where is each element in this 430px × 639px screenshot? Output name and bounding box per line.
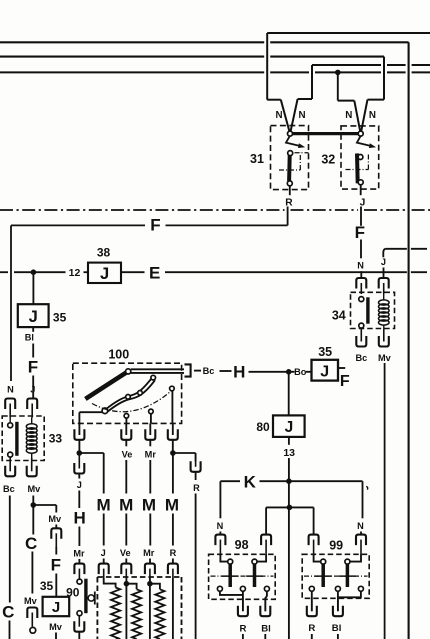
- label 13 connector pin: [283, 447, 295, 459]
- node junction on E line: [31, 269, 37, 275]
- svg-text:K: K: [244, 473, 257, 492]
- switch 31 mechanical dash-dot link: [279, 153, 309, 170]
- connector below 90: [74, 615, 84, 639]
- svg-text:12: 12: [69, 267, 81, 279]
- svg-text:E: E: [149, 264, 160, 283]
- wire J output of 32 down with labels F N: [360, 207, 362, 279]
- svg-text:Mr: Mr: [145, 449, 157, 459]
- svg-text:H: H: [233, 362, 245, 381]
- svg-text:Ve: Ve: [122, 449, 133, 459]
- svg-text:N: N: [357, 521, 364, 531]
- 98 entry jogs: [220, 554, 266, 562]
- 99 entry jogs: [314, 554, 361, 562]
- svg-text:Mv: Mv: [28, 484, 42, 494]
- svg-text:N: N: [298, 110, 305, 121]
- wire M3 (Mr): [149, 440, 151, 564]
- wire Mv right-side long vertical: [384, 363, 386, 639]
- labels R Bl below 98: [240, 624, 247, 635]
- connector above flasher 33 right: [27, 399, 37, 418]
- wire bus line 1 (top horizontal to relay 31 left feed): [267, 33, 430, 100]
- node junction on bus line 5: [335, 70, 341, 101]
- junction box unit 35 J (bottom): [43, 597, 70, 616]
- labels R Bl below 99: [308, 623, 315, 634]
- label N above relay 34: [357, 261, 364, 271]
- label 31: [250, 152, 264, 166]
- svg-text:J: J: [101, 548, 106, 558]
- label N pin relay 32 left: [345, 110, 352, 121]
- switch 31 contact bar: [287, 151, 292, 186]
- wire dash between Bc and H: [220, 370, 232, 372]
- label N pin relay 31 right: [298, 110, 305, 121]
- wire net K horizontal: [220, 480, 362, 482]
- label Bc right of switch: [203, 366, 215, 376]
- label 100: [108, 347, 129, 361]
- node T junction: [266, 505, 314, 511]
- svg-text:R: R: [285, 198, 293, 209]
- label Bl wire colour: [25, 333, 34, 343]
- lamp unit 99 dashed box: [302, 554, 369, 598]
- label Mv below bottom 35: [49, 622, 63, 632]
- connector below 100 output 4: [168, 423, 178, 439]
- 99 crossbars: [315, 575, 356, 577]
- svg-text:F: F: [340, 373, 350, 390]
- junction box unit 80 J: [273, 415, 305, 437]
- label J output of 32: [360, 198, 366, 209]
- label 38: [97, 246, 111, 260]
- svg-text:C: C: [25, 534, 37, 553]
- wire H to junction: [249, 371, 287, 373]
- svg-text:J: J: [52, 599, 60, 616]
- connector pair on wire 1: [74, 455, 84, 474]
- label M wire 4: [165, 495, 179, 514]
- label Ve upper: [122, 449, 133, 459]
- wire into resistor 3 with junction: [147, 578, 160, 639]
- connector above thermal switch 90: [74, 564, 84, 579]
- wire bus line 5 (bottom horizontal of bus): [0, 71, 430, 73]
- svg-text:J: J: [285, 419, 294, 436]
- wire from switch 32 to label J: [360, 185, 362, 196]
- svg-text:F: F: [150, 216, 160, 235]
- svg-text:J: J: [320, 363, 329, 380]
- wire Bc to H: [194, 370, 201, 372]
- wire Mv down with junction: [31, 496, 37, 594]
- svg-text:31: 31: [250, 152, 264, 166]
- svg-text:80: 80: [256, 420, 270, 434]
- label J wire colour: [30, 384, 35, 394]
- wire funnel right into relay 31 terminal N: [291, 99, 312, 131]
- wire funnel right into relay 32 terminal N: [361, 100, 384, 132]
- svg-text:J: J: [100, 265, 109, 283]
- wire bus line 4 (feeds relay 31 right): [312, 65, 430, 99]
- label J on wire 1: [77, 480, 82, 490]
- svg-text:F: F: [51, 556, 61, 575]
- svg-text:J: J: [381, 257, 386, 267]
- junction box unit 35 J (right): [312, 360, 339, 381]
- svg-text:N: N: [369, 110, 376, 121]
- svg-text:32: 32: [321, 152, 335, 166]
- node junction H line: [286, 369, 292, 375]
- label 35 (right unit): [318, 345, 332, 359]
- connectors below 98: [238, 598, 270, 617]
- svg-text:Mr: Mr: [143, 548, 155, 558]
- 99 plunger bars: [323, 564, 347, 587]
- wire to 35 with label F: [55, 547, 57, 597]
- switch 32 moving arm with arrow: [357, 136, 376, 148]
- svg-text:R: R: [240, 624, 247, 635]
- label Mr on wire 1: [73, 549, 85, 559]
- label Mv lower: [24, 596, 38, 606]
- svg-text:C: C: [2, 603, 14, 622]
- label 34: [332, 309, 346, 323]
- wire M4 (R) with junction: [170, 440, 176, 564]
- wire right-side long vertical: [408, 42, 410, 639]
- connector above 34 right: [379, 278, 389, 294]
- wire net F horizontal: [11, 207, 288, 382]
- svg-text:F: F: [355, 223, 365, 242]
- 98 bottom contacts: [217, 586, 269, 591]
- lighting switch 100 dashed box: [73, 363, 182, 423]
- wire K left leg to lamp 98: [219, 481, 221, 534]
- svg-text:J: J: [30, 384, 35, 394]
- wire Bc down to net C: [9, 496, 11, 639]
- section divider dash-dot line: [0, 209, 430, 211]
- wire bus line 3 (third horizontal, feeds relay 32 right): [0, 57, 384, 100]
- svg-text:R: R: [308, 623, 315, 634]
- connector on Mv branch: [51, 528, 61, 547]
- label Mv wire colour: [28, 484, 42, 494]
- svg-text:Bc: Bc: [3, 484, 15, 494]
- svg-text:38: 38: [97, 246, 111, 260]
- label H net: [73, 509, 85, 528]
- wire into resistor 1: [104, 578, 116, 588]
- switch 32 dashed box: [341, 126, 379, 189]
- label 99: [329, 539, 343, 553]
- thermal switch 90: [77, 579, 86, 616]
- connector above 98 left: [215, 535, 225, 554]
- switch 31 moving arm with arrow: [286, 136, 305, 148]
- 98 output wires: [220, 591, 267, 611]
- wire bus line 2 (second horizontal, turns down right side): [0, 41, 409, 43]
- svg-text:M: M: [142, 495, 156, 514]
- receptacle connector for Bc: [185, 364, 191, 376]
- svg-text:J: J: [29, 308, 38, 326]
- label 35 (bottom unit): [40, 579, 54, 593]
- svg-text:N: N: [217, 521, 224, 531]
- svg-text:Mv: Mv: [48, 514, 62, 524]
- label Ve lower: [120, 548, 131, 558]
- 98 dash-dot linkage: [211, 575, 274, 577]
- flasher 33 contact pair: [8, 418, 17, 458]
- wire 4 through resistor box: [172, 578, 174, 639]
- wire stubs below 99: [312, 634, 338, 639]
- svg-text:Ve: Ve: [120, 548, 131, 558]
- 98 crossbars: [222, 575, 263, 577]
- label N on 98 left: [217, 521, 224, 531]
- junction box unit 35 J (left): [18, 304, 49, 327]
- 99 dash-dot linkage: [304, 575, 368, 577]
- label R branch: [193, 483, 200, 493]
- wire 1 labels J H Mr: [78, 474, 80, 564]
- label Bc wire colour: [3, 484, 15, 494]
- connector below 100 output 1: [74, 423, 84, 439]
- 99 output wires: [312, 591, 361, 611]
- label F on branch: [51, 556, 61, 575]
- label 32: [321, 152, 335, 166]
- wire from E junction down to unit 35: [32, 272, 34, 304]
- wire feed to 34 coil from right bus: [383, 249, 427, 278]
- wire stubs below 98: [243, 634, 265, 639]
- label N pin relay 31 left: [275, 110, 282, 121]
- svg-text:Bc: Bc: [203, 366, 215, 376]
- svg-text:13: 13: [283, 447, 295, 459]
- relay 34 dashed box: [351, 292, 395, 328]
- svg-text:R: R: [170, 548, 177, 558]
- wire 1 from 100 with junction: [77, 440, 83, 456]
- label 90: [66, 585, 80, 599]
- svg-text:Bo: Bo: [294, 367, 307, 377]
- label M wire 2: [119, 495, 133, 514]
- label R wire 4: [170, 548, 177, 558]
- wire from switch 31 to label R: [289, 186, 291, 195]
- label J above 34 coil: [381, 257, 386, 267]
- wire M2 (Ve): [125, 440, 127, 564]
- wire net E horizontal: [0, 271, 427, 273]
- switch 32 upper contact: [358, 131, 363, 136]
- svg-text:M: M: [97, 495, 111, 514]
- wire 80 down with pin 13: [288, 437, 290, 481]
- wire Mv branch to unit 35 lower: [33, 505, 56, 528]
- label N wire colour (left wire): [7, 384, 14, 394]
- label M wire 1: [97, 495, 111, 514]
- svg-text:Bl: Bl: [332, 623, 342, 634]
- svg-text:N: N: [275, 110, 282, 121]
- label 35 (left unit): [53, 311, 67, 325]
- svg-text:34: 34: [332, 309, 346, 323]
- resistor block dashed box: [97, 577, 181, 639]
- svg-text:100: 100: [108, 347, 129, 361]
- svg-text:Mr: Mr: [73, 549, 85, 559]
- wire R branch: [173, 453, 201, 639]
- label 33: [49, 431, 63, 445]
- label Mv branch: [48, 514, 62, 524]
- svg-text:J: J: [77, 480, 82, 490]
- connectors below relay 34: [356, 325, 389, 347]
- wire center vertical from K junction to bottom: [288, 481, 290, 639]
- switch 100 bottom-left feed wire: [79, 412, 102, 423]
- label R output of 31: [285, 198, 293, 209]
- label F on 32 wire: [355, 223, 365, 242]
- wire 35 to flasher 33 with labels F J: [32, 327, 34, 398]
- wire funnel left into relay 32 terminal N: [338, 101, 360, 132]
- connector above 99 right: [356, 535, 366, 554]
- label J wire 1 lower: [101, 548, 106, 558]
- connectors below 99: [307, 598, 343, 616]
- connector at bottom of Mv wire: [27, 608, 37, 634]
- 99 bottom contacts: [309, 586, 363, 591]
- relay 34 coil: [379, 294, 390, 325]
- wire H junction down to unit 80: [288, 372, 290, 416]
- connector above resistor 3: [145, 564, 155, 578]
- wire T left leg to 98 right: [261, 507, 271, 553]
- svg-text:33: 33: [49, 431, 63, 445]
- resistor R3: [155, 589, 164, 639]
- label K net: [244, 473, 257, 492]
- wire M1 branch: [79, 453, 103, 564]
- svg-text:35: 35: [318, 345, 332, 359]
- relay 34 contact pair: [359, 297, 368, 329]
- label N pin relay 32 right: [369, 110, 376, 121]
- label N on 99 right: [357, 521, 364, 531]
- switch 100 fixed contacts with wires: [124, 414, 129, 424]
- lamp unit 98 dashed box: [209, 554, 276, 599]
- svg-text:99: 99: [329, 539, 343, 553]
- connector above resistor 1: [99, 564, 109, 578]
- switch 31 upper contact: [288, 131, 293, 136]
- svg-text:M: M: [119, 495, 133, 514]
- label C net (on Mv wire): [25, 534, 37, 553]
- label Bc below 34: [356, 353, 368, 363]
- printing speck near K corner: [366, 487, 368, 490]
- label F on wire: [28, 358, 38, 377]
- tick and label F right of unit 35: [338, 368, 350, 390]
- connector above resistor 2: [121, 564, 131, 578]
- svg-text:M: M: [165, 495, 179, 514]
- switch 100 curved contact arm: [102, 375, 155, 413]
- flasher unit 33 dashed box: [2, 416, 44, 461]
- label 12 connector pin: [69, 267, 81, 279]
- svg-text:Mv: Mv: [24, 596, 38, 606]
- svg-text:N: N: [7, 384, 14, 394]
- svg-text:R: R: [193, 483, 200, 493]
- wire funnel left into relay 31 terminal N: [267, 100, 289, 132]
- switch 100 lever: [85, 369, 130, 399]
- connector below 100 output 3: [145, 423, 155, 439]
- svg-text:H: H: [73, 509, 85, 528]
- svg-text:90: 90: [66, 585, 80, 599]
- connector above 34 left: [356, 278, 366, 294]
- connector on wire 4: [168, 564, 178, 578]
- switch 31 dashed box: [271, 126, 309, 190]
- switch 100 dash-dot travel arc: [92, 389, 174, 412]
- svg-text:Mv: Mv: [49, 622, 63, 632]
- resistor R1: [111, 588, 120, 639]
- svg-text:Mv: Mv: [378, 353, 392, 363]
- thermal symbol theta: [88, 592, 95, 605]
- label C net (lower left): [2, 603, 14, 622]
- thick link wire between 31 and 32 contacts: [292, 132, 358, 135]
- flasher 33 coil: [26, 418, 37, 454]
- label Bo: [294, 367, 307, 377]
- label Mr upper: [145, 449, 157, 459]
- label Mr lower: [143, 548, 155, 558]
- wire stub below bottom 35: [55, 633, 57, 639]
- svg-text:Bl: Bl: [25, 333, 34, 343]
- wire K right leg to lamp 99: [361, 481, 363, 534]
- switch 32 contact bar: [357, 153, 363, 184]
- label 80: [256, 420, 270, 434]
- svg-text:F: F: [28, 358, 38, 377]
- connector above flasher 33 left: [5, 399, 15, 418]
- 98 top contacts: [228, 559, 257, 564]
- svg-text:N: N: [345, 110, 352, 121]
- label 98: [235, 538, 249, 552]
- svg-text:35: 35: [53, 311, 67, 325]
- label M wire 3: [142, 495, 156, 514]
- switch 100 output contact strip to Bc: [131, 369, 184, 373]
- switch 32 mechanical dash-dot link: [346, 153, 369, 169]
- 99 top contacts: [321, 559, 350, 564]
- label E net: [149, 264, 160, 283]
- 98 plunger bars: [230, 564, 254, 587]
- resistor R2: [132, 589, 141, 639]
- svg-text:Bc: Bc: [356, 353, 368, 363]
- label Mv below 34: [378, 353, 392, 363]
- wire into resistor 2 with junction: [124, 578, 137, 639]
- svg-text:Bl: Bl: [261, 624, 271, 635]
- node junction on K line: [286, 478, 292, 484]
- label H net: [233, 362, 245, 381]
- svg-text:N: N: [357, 261, 364, 271]
- svg-text:35: 35: [40, 579, 54, 593]
- junction box unit 38 J: [88, 263, 121, 283]
- svg-text:98: 98: [235, 538, 249, 552]
- connectors below flasher 33: [5, 453, 37, 476]
- connector below 100 output 2: [121, 423, 131, 439]
- label F net: [150, 216, 160, 235]
- wire junction to Bo and unit 35: [291, 371, 311, 373]
- wire T right leg to 99 left: [309, 507, 319, 553]
